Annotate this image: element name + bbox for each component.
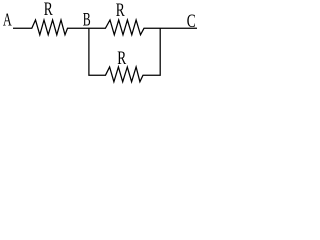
svg-text:C: C	[187, 9, 196, 31]
svg-text:R: R	[44, 0, 54, 19]
svg-text:B: B	[83, 10, 91, 30]
svg-text:R: R	[116, 0, 126, 21]
svg-text:R: R	[117, 46, 127, 68]
svg-text:A: A	[3, 10, 12, 30]
